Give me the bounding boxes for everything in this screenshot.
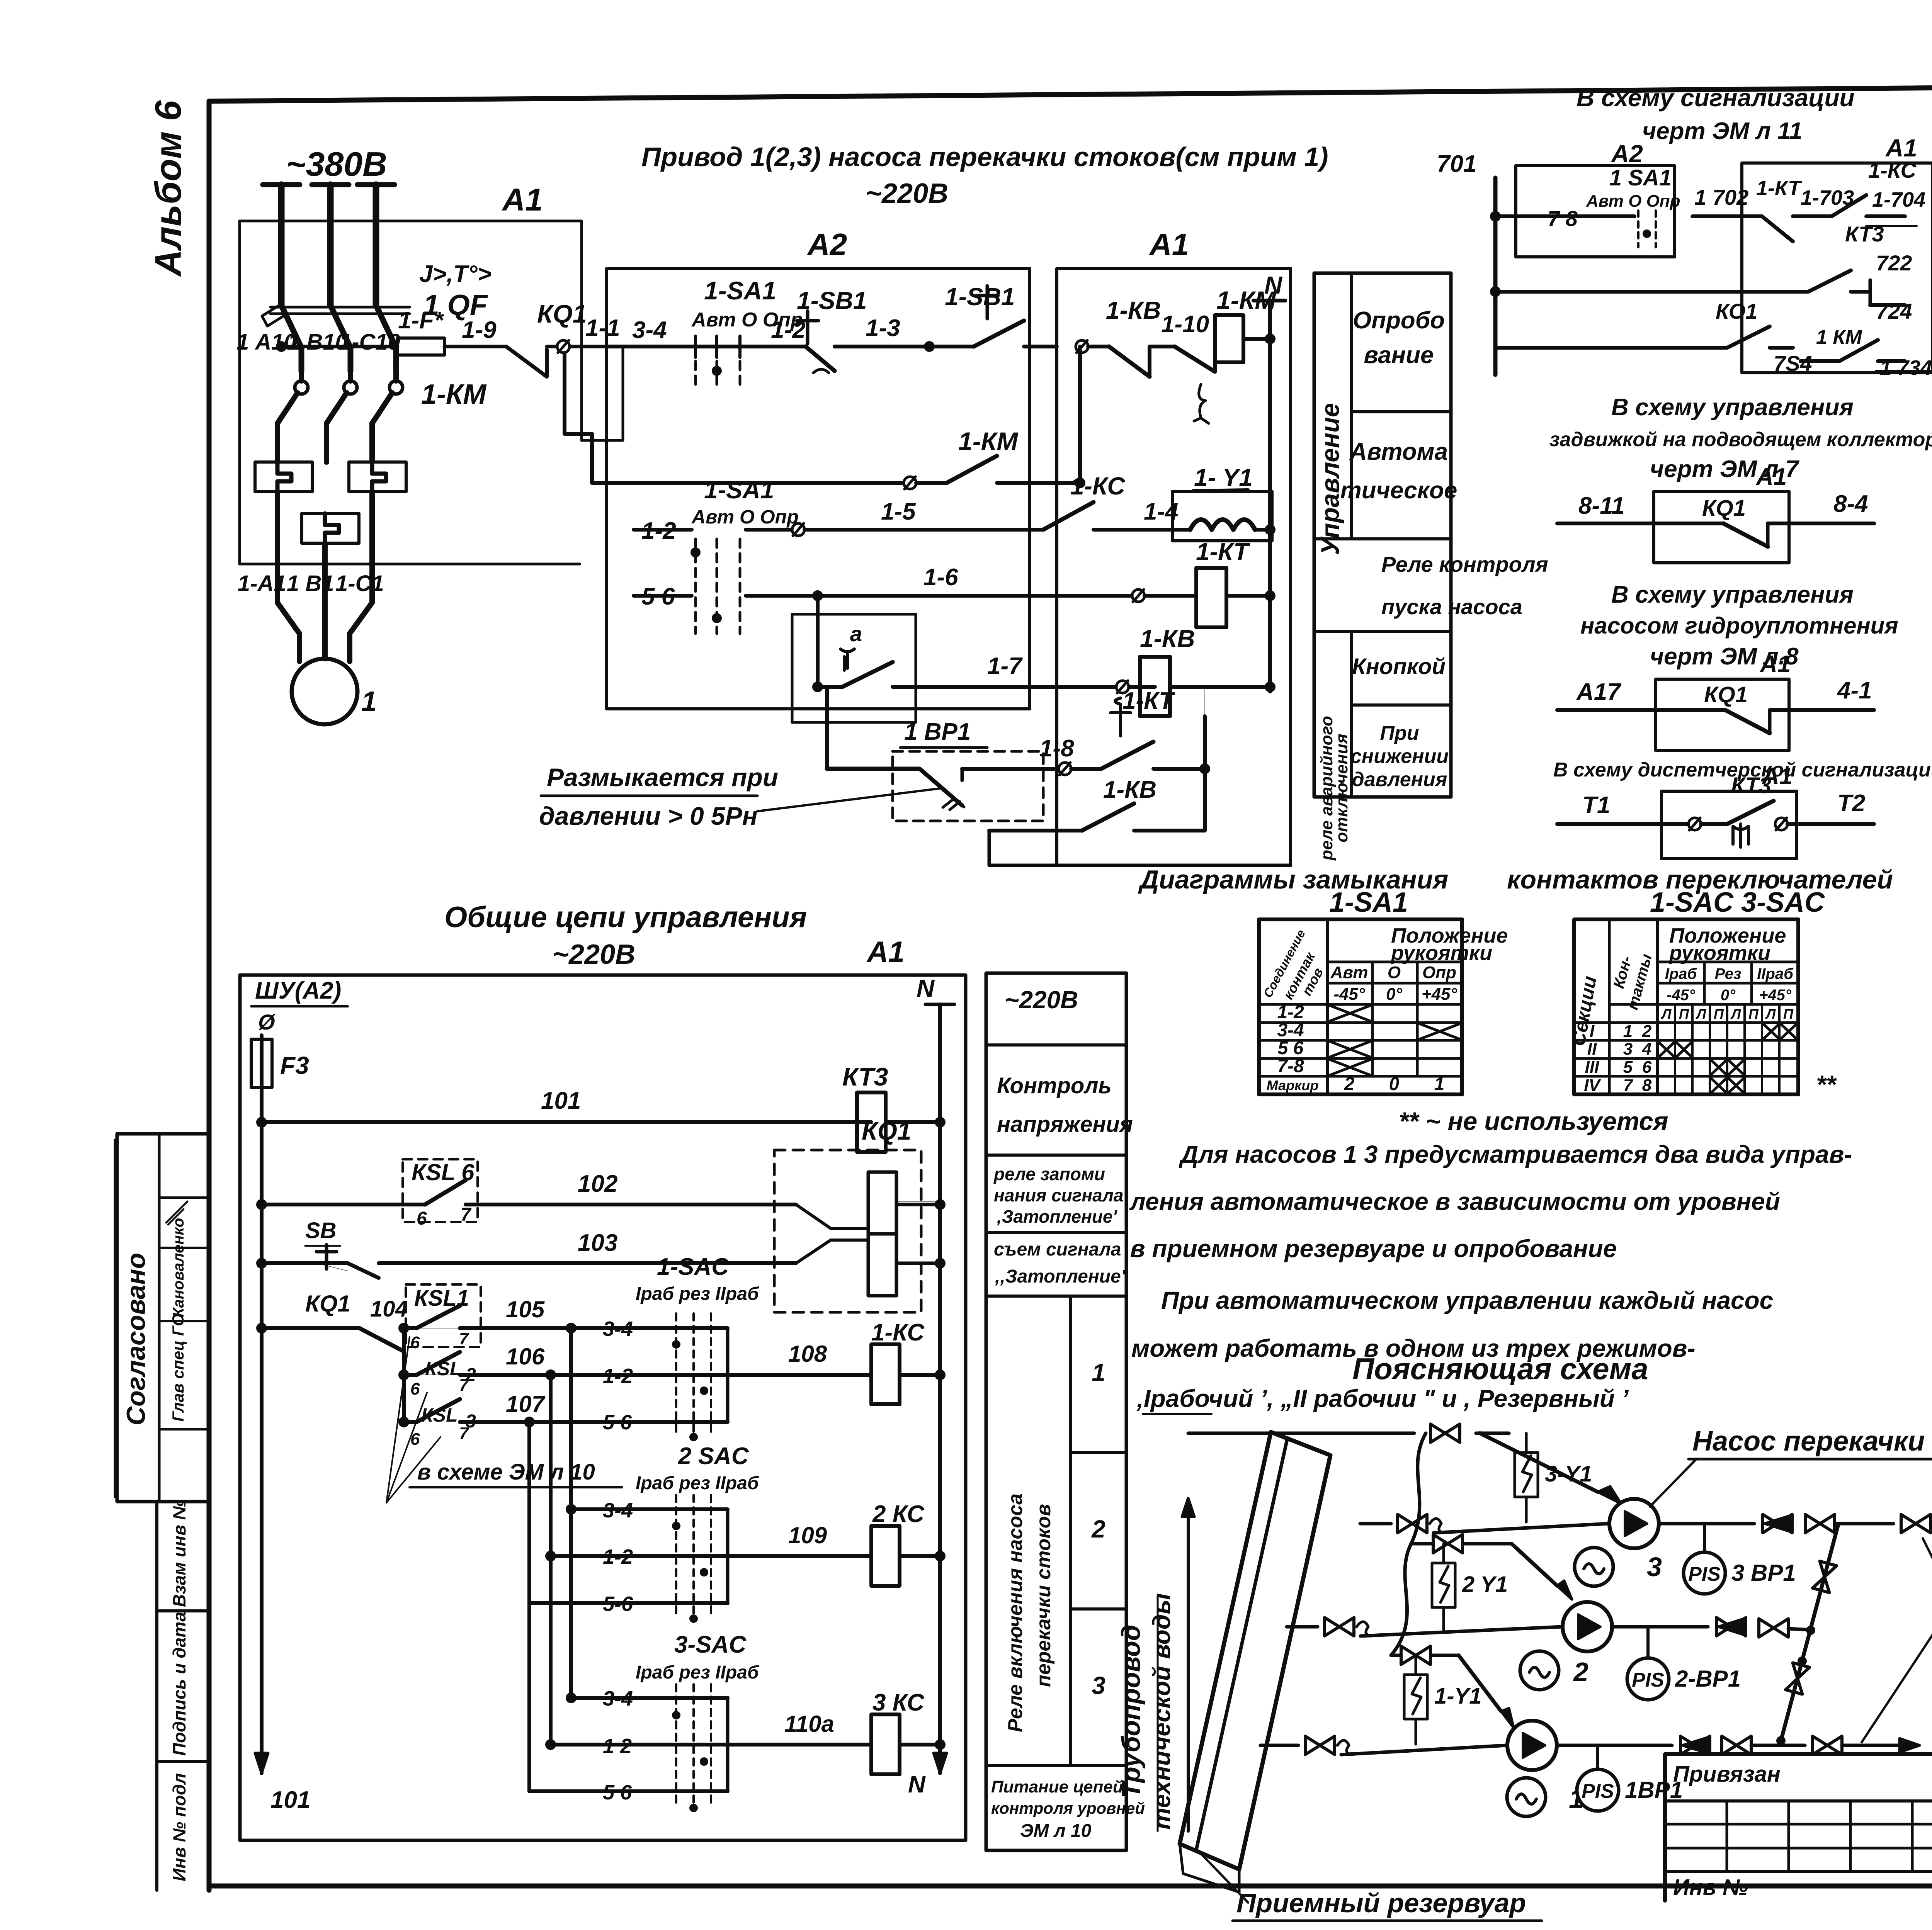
svg-text:1-КВ: 1-КВ: [1140, 625, 1195, 652]
svg-text:7S4: 7S4: [1774, 351, 1812, 375]
svg-text:1-F*: 1-F*: [398, 307, 444, 334]
svg-text:1-SAC: 1-SAC: [657, 1254, 729, 1280]
drawing heading: [641, 142, 1328, 209]
SAC column block 3: [529, 1631, 946, 1812]
svg-text:1-КМ: 1-КМ: [1216, 286, 1277, 314]
svg-text:1-3: 1-3: [866, 315, 900, 341]
pressure relay 1 BP1: [827, 687, 1043, 821]
svg-text:3-SAC: 3-SAC: [674, 1631, 747, 1658]
svg-text:Ø: Ø: [258, 1010, 276, 1034]
svg-text:IIраб: IIраб: [1757, 965, 1794, 982]
svg-text:ления автоматическое в зави: ления автоматическое в зависимости от ур…: [1129, 1188, 1780, 1215]
svg-text:а: а: [850, 622, 862, 646]
svg-text:1-Y1: 1-Y1: [1434, 1684, 1482, 1709]
left bus 101: [255, 1122, 310, 1813]
svg-text:Привод 1(2,3) насоса перекачки: Привод 1(2,3) насоса перекачки стоков(см…: [641, 142, 1328, 172]
motor 1: [292, 659, 377, 724]
svg-text:2 КС: 2 КС: [872, 1501, 925, 1527]
reference to EM l10: [386, 1337, 622, 1503]
svg-text:Iраб: Iраб: [1665, 965, 1697, 982]
svg-text:1ВР1: 1ВР1: [1625, 1777, 1683, 1803]
svg-text:А2: А2: [1611, 140, 1643, 168]
fuse 1-F* and relay KQ1 contact feed: [276, 299, 623, 377]
feeder label ShU(A2): [251, 977, 348, 1034]
svg-text:1-С1: 1-С1: [335, 571, 384, 596]
svg-text:~220В: ~220В: [1005, 986, 1078, 1014]
svg-text:0°: 0°: [1386, 985, 1402, 1004]
diagrams heading: [1138, 865, 1893, 918]
contactor 1-KM power contacts: [277, 371, 487, 462]
svg-text:1 734: 1 734: [1880, 356, 1932, 379]
svg-text:задвижкой на подводящем коллек: задвижкой на подводящем коллекторе: [1549, 428, 1932, 451]
svg-text:3-Y1: 3-Y1: [1545, 1461, 1592, 1487]
contact 1-KB NC row1: [1076, 296, 1215, 423]
svg-text:пуска насоса: пуска насоса: [1381, 595, 1522, 619]
mini valve control circuit: [1557, 464, 1874, 563]
svg-text:Контроль: Контроль: [997, 1073, 1112, 1098]
note razmykaetsya: [539, 763, 943, 830]
row 104 KQ1 contact: [256, 1291, 491, 1351]
svg-text:П: П: [1714, 1006, 1724, 1022]
svg-text:рукоятки: рукоятки: [1390, 941, 1492, 965]
tech water pipe labels: [1116, 1593, 1175, 1831]
svg-text:перекачки стоков: перекачки стоков: [1032, 1504, 1055, 1687]
svg-text:~220В: ~220В: [553, 939, 635, 970]
svg-text:105: 105: [506, 1296, 545, 1322]
svg-text:722: 722: [1876, 251, 1912, 275]
svg-text:Кановаленко: Кановаленко: [170, 1218, 187, 1317]
svg-text:7-8: 7-8: [1277, 1056, 1304, 1077]
common circuit cabinet A1 box: [240, 936, 966, 1840]
svg-text:1-КВ: 1-КВ: [1103, 776, 1156, 803]
svg-text:1-SA1: 1-SA1: [704, 276, 776, 305]
svg-text:1-КТ: 1-КТ: [1122, 688, 1175, 714]
svg-text:При автоматическом управлени: При автоматическом управлении каждый нас…: [1161, 1286, 1773, 1314]
svg-text:PIS: PIS: [1582, 1780, 1614, 1803]
svg-text:Инв №: Инв №: [1673, 1875, 1748, 1900]
mini signalling circuit: [1437, 134, 1932, 379]
valve coil 1-Y1: [1172, 464, 1276, 541]
svg-text:108: 108: [788, 1341, 827, 1367]
svg-text:IV: IV: [1584, 1076, 1601, 1095]
svg-text:3: 3: [1092, 1672, 1105, 1699]
svg-text:1-6: 1-6: [923, 564, 958, 591]
N bus right: [908, 974, 954, 1798]
svg-text:3 ВР1: 3 ВР1: [1731, 1560, 1796, 1586]
svg-text:104: 104: [370, 1296, 408, 1322]
svg-text:давления: давления: [1352, 768, 1447, 791]
svg-text:3: 3: [1623, 1040, 1633, 1058]
svg-text:1-704: 1-704: [1872, 188, 1925, 211]
svg-text:В схему сигнализации: В схему сигнализации: [1577, 84, 1855, 112]
svg-text:**: **: [1816, 1070, 1837, 1099]
contactor coil 1-KM: [1215, 286, 1277, 362]
svg-text:1-А1: 1-А1: [238, 571, 286, 596]
fuse F3: [251, 1035, 309, 1122]
svg-text:Авт: Авт: [1330, 963, 1368, 982]
row 102 KSL6: [256, 1159, 796, 1229]
svg-text:1-С10: 1-С10: [339, 330, 400, 355]
svg-text:3-4: 3-4: [1277, 1020, 1304, 1041]
svg-text:в схеме ЭМ л 10: в схеме ЭМ л 10: [417, 1459, 595, 1485]
breaker 1QF: [236, 185, 492, 371]
function label column top: [1314, 273, 1548, 861]
svg-text:1-КМ: 1-КМ: [958, 427, 1019, 455]
svg-text:1-КВ: 1-КВ: [1106, 296, 1161, 324]
svg-text:‚Затопление': ‚Затопление': [997, 1206, 1117, 1227]
thermal relay heaters: [255, 462, 406, 543]
center text paragraphs: [1129, 1140, 1852, 1414]
svg-text:7 8: 7 8: [1548, 206, 1578, 231]
svg-text:Опр: Опр: [1422, 963, 1456, 982]
svg-text:N: N: [908, 1771, 926, 1798]
svg-text:1-КМ: 1-КМ: [421, 379, 487, 410]
svg-text:съем сигнала: съем сигнала: [994, 1239, 1121, 1260]
svg-text:Для насосов 1 3 предусматр: Для насосов 1 3 предусматривается два ви…: [1179, 1140, 1852, 1168]
svg-text:SB: SB: [305, 1218, 337, 1243]
pressure switch contact a: [792, 596, 1155, 722]
svg-text:1-1: 1-1: [585, 315, 620, 341]
svg-text:PIS: PIS: [1632, 1669, 1664, 1691]
svg-text:При: При: [1380, 722, 1419, 744]
svg-text:Поясняющая схема: Поясняющая схема: [1352, 1352, 1648, 1386]
block A1 control outline: [1057, 227, 1291, 865]
switch 1-SA1 top: [684, 276, 803, 390]
pressure manifold riser: [1776, 1524, 1838, 1745]
svg-text:снижении: снижении: [1350, 745, 1449, 768]
tank label: [1198, 1850, 1542, 1921]
svg-text:Л: Л: [1696, 1006, 1707, 1022]
common circuits heading: [444, 901, 807, 970]
svg-text:Iраб рез IIраб: Iраб рез IIраб: [636, 1284, 759, 1304]
svg-text:0°: 0°: [1721, 987, 1736, 1004]
svg-text:нания сигнала: нания сигнала: [994, 1185, 1123, 1205]
svg-text:8: 8: [1642, 1076, 1652, 1095]
svg-text:1: 1: [361, 686, 377, 717]
N bus: [1253, 271, 1285, 691]
svg-text:1: 1: [1092, 1359, 1105, 1386]
solenoid valve 2 Y1: [1442, 1544, 1445, 1563]
svg-text:А1: А1: [1759, 651, 1791, 678]
button 1-SB1 start: [924, 283, 1057, 352]
svg-text:2: 2: [1573, 1657, 1588, 1687]
svg-text:КТ3: КТ3: [1845, 222, 1884, 246]
mini hydro pump heading: [1580, 581, 1898, 670]
node 3-4 row main: [607, 317, 684, 347]
svg-text:Iраб рез IIраб: Iраб рез IIраб: [636, 1473, 759, 1493]
svg-text:насосом гидроуплотнения: насосом гидроуплотнения: [1580, 613, 1898, 639]
pump unit 2: [1287, 1602, 1815, 1700]
svg-text:1-5: 1-5: [881, 498, 916, 525]
svg-text:А17: А17: [1576, 679, 1621, 705]
svg-text:Приемный резервуар: Приемный резервуар: [1236, 1888, 1526, 1918]
svg-text:5: 5: [1623, 1058, 1633, 1077]
svg-text:1-КТ: 1-КТ: [1756, 177, 1802, 200]
relay coil 1-KB: [1140, 625, 1276, 716]
relay 1-KT feed row 5-6: [634, 538, 1276, 627]
svg-text:Подпись и дата: Подпись и дата: [169, 1612, 189, 1756]
svg-text:1: 1: [1623, 1022, 1633, 1041]
svg-text:А1: А1: [1755, 464, 1787, 490]
svg-text:О: О: [1388, 963, 1401, 982]
svg-text:Авт О Опр: Авт О Опр: [1586, 192, 1680, 211]
svg-text:I: I: [1590, 1022, 1595, 1041]
svg-text:КQ1: КQ1: [305, 1291, 350, 1317]
svg-text:III: III: [1585, 1058, 1599, 1077]
svg-text:Т2: Т2: [1837, 790, 1865, 817]
svg-text:** ~ не используется: ** ~ не используется: [1399, 1107, 1668, 1135]
svg-text:Автома: Автома: [1349, 438, 1448, 465]
svg-text:А1: А1: [502, 182, 543, 217]
svg-text:6: 6: [410, 1333, 420, 1352]
svg-text:J>,Т°>: J>,Т°>: [419, 261, 492, 287]
svg-text:1-SA1: 1-SA1: [704, 476, 774, 504]
svg-text:Кнопкой: Кнопкой: [1352, 654, 1446, 679]
receiving tank prism: [1180, 1432, 1330, 1892]
svg-text:102: 102: [578, 1171, 617, 1197]
supply ticks: [263, 182, 395, 187]
svg-text:КТ3: КТ3: [842, 1062, 888, 1091]
SAC column block 1: [524, 1254, 946, 1791]
svg-text:П: П: [1679, 1006, 1689, 1022]
svg-text:В схему управления: В схему управления: [1611, 581, 1854, 608]
svg-text:103: 103: [578, 1230, 617, 1256]
cabinet A1 power outline: [240, 182, 623, 564]
svg-text:8-4: 8-4: [1833, 491, 1868, 517]
svg-text:110а: 110а: [784, 1711, 834, 1737]
svg-text:7: 7: [459, 1424, 469, 1443]
svg-text:2 Y1: 2 Y1: [1462, 1572, 1508, 1597]
svg-text:II: II: [1587, 1040, 1597, 1058]
svg-text:1 А10: 1 А10: [236, 330, 296, 355]
svg-text:6: 6: [417, 1208, 427, 1229]
svg-text:КТ3: КТ3: [1731, 773, 1771, 798]
svg-text:701: 701: [1437, 151, 1476, 177]
svg-text:1 ВР1: 1 ВР1: [904, 719, 971, 745]
svg-text:107: 107: [506, 1391, 546, 1417]
svg-text:1-КС: 1-КС: [871, 1319, 925, 1346]
svg-text:1-SB1: 1-SB1: [945, 283, 1015, 311]
svg-text:Рез: Рез: [1715, 965, 1742, 982]
svg-text:Привязан: Привязан: [1673, 1762, 1781, 1787]
svg-text:4: 4: [1642, 1040, 1651, 1058]
svg-text:2-ВР1: 2-ВР1: [1675, 1666, 1741, 1692]
svg-text:1-КС: 1-КС: [1868, 158, 1917, 182]
svg-text:ШУ(А2): ШУ(А2): [255, 977, 341, 1004]
table 1-SA1: [1259, 919, 1508, 1094]
svg-text:3-4: 3-4: [632, 317, 667, 343]
svg-text:N: N: [917, 974, 935, 1002]
svg-text:отключения: отключения: [1332, 734, 1351, 843]
svg-text:-45°: -45°: [1333, 985, 1365, 1004]
svg-text:Согласовано: Согласовано: [121, 1253, 151, 1425]
motor feeder wires: [238, 492, 384, 661]
svg-text:1- Y1: 1- Y1: [1194, 464, 1253, 491]
svg-text:2: 2: [1091, 1515, 1105, 1543]
svg-text:реле запоми: реле запоми: [993, 1164, 1105, 1184]
svg-text:4-1: 4-1: [1837, 677, 1872, 704]
svg-text:1: 1: [1434, 1074, 1445, 1094]
soglasovano stamp block: [115, 1134, 209, 1502]
contact 1-KM aux row: [565, 347, 1085, 489]
svg-text:PIS: PIS: [1688, 1563, 1721, 1585]
svg-text:101: 101: [270, 1787, 310, 1813]
svg-text:Питание цепей: Питание цепей: [991, 1777, 1123, 1796]
top supply pipe to pump3: [1188, 1424, 1621, 1504]
svg-text:1-SB1: 1-SB1: [797, 287, 867, 314]
svg-text:Л: Л: [1730, 1006, 1742, 1022]
svg-text:0: 0: [1389, 1074, 1400, 1094]
svg-text:КQ1: КQ1: [862, 1116, 912, 1145]
svg-text:~220В: ~220В: [866, 178, 948, 209]
svg-text:Секции: Секции: [1567, 974, 1601, 1048]
svg-text:1-2: 1-2: [1277, 1002, 1304, 1023]
zigzag seal-water drop: [1391, 1433, 1426, 1655]
relay KQ1 latching block: [774, 1116, 946, 1312]
svg-text:тическое: тическое: [1340, 477, 1458, 504]
svg-text:1-SAC 3-SAC: 1-SAC 3-SAC: [1650, 887, 1825, 918]
svg-text:Размыкается при: Размыкается при: [547, 763, 778, 792]
relay coil KT3 row 101: [256, 1062, 946, 1152]
svg-text:Л: Л: [1661, 1006, 1672, 1022]
svg-text:А2: А2: [807, 227, 847, 262]
svg-text:1-10: 1-10: [1161, 311, 1209, 338]
svg-text:черт ЭМ л 11: черт ЭМ л 11: [1642, 118, 1802, 144]
contact 1-KB hold: [989, 776, 1291, 865]
mini dispatch circuit: [1557, 763, 1874, 859]
svg-text:КQ1: КQ1: [1704, 682, 1748, 707]
svg-text:109: 109: [788, 1522, 827, 1548]
svg-text:Т1: Т1: [1582, 792, 1610, 819]
svg-text:7: 7: [1623, 1076, 1634, 1095]
svg-text:2: 2: [1642, 1022, 1652, 1041]
svg-text:КQ1: КQ1: [537, 299, 587, 328]
svg-text:технической воды: технической воды: [1148, 1593, 1175, 1830]
svg-text:рукоятки: рукоятки: [1668, 941, 1770, 965]
svg-text:контроля уровней: контроля уровней: [991, 1799, 1145, 1817]
svg-text:7: 7: [459, 1376, 469, 1395]
button 1-SB1 stop: [746, 287, 929, 373]
svg-text:‚‚Затопление': ‚‚Затопление': [995, 1266, 1126, 1287]
svg-text:П: П: [1748, 1006, 1759, 1022]
svg-text:7: 7: [459, 1329, 469, 1348]
svg-text:1-9: 1-9: [462, 317, 497, 343]
supply stub to pump1: [1391, 1646, 1514, 1728]
pressure pipes label: [1862, 1538, 1932, 1742]
svg-text:Iраб рез IIраб: Iраб рез IIраб: [636, 1662, 759, 1683]
svg-text:2: 2: [1344, 1074, 1355, 1094]
svg-text:А1: А1: [1149, 227, 1189, 262]
svg-text:3 КС: 3 КС: [872, 1689, 925, 1716]
svg-text:-45°: -45°: [1667, 987, 1696, 1004]
svg-text:в приемном резервуаре и о: в приемном резервуаре и опробование: [1130, 1235, 1617, 1262]
svg-text:724: 724: [1876, 299, 1912, 323]
svg-text:~380В: ~380В: [286, 145, 387, 183]
svg-text:1-7: 1-7: [987, 653, 1023, 680]
svg-text:+45°: +45°: [1759, 987, 1792, 1004]
svg-text:давлении > 0 5Рн: давлении > 0 5Рн: [539, 802, 758, 830]
svg-text:6: 6: [1642, 1058, 1652, 1077]
switch 1-SA1 lower + contact 1-KC: [634, 472, 1179, 634]
svg-text:Насос перекачки стоков: Насос перекачки стоков: [1692, 1426, 1932, 1457]
svg-text:Инв № подл: Инв № подл: [169, 1773, 189, 1881]
svg-text:Авт О Опр: Авт О Опр: [691, 506, 799, 528]
svg-text:5 6: 5 6: [1278, 1038, 1304, 1058]
row 103 SB button: [256, 1218, 796, 1278]
solenoid valve 3-Y1: [1525, 1433, 1528, 1453]
svg-text:А1: А1: [866, 936, 905, 968]
svg-text:1-КС: 1-КС: [1070, 472, 1125, 500]
KSL1-3 level switch group: [398, 1284, 571, 1449]
mini hydro pump circuit: [1557, 651, 1874, 751]
svg-text:напряжения: напряжения: [997, 1112, 1133, 1137]
svg-text:+45°: +45°: [1422, 985, 1458, 1004]
tech water vertical pipe with arrow: [1182, 1498, 1194, 1831]
svg-text:1 В10: 1 В10: [288, 330, 348, 355]
svg-text:Реле включения насоса: Реле включения насоса: [1004, 1493, 1027, 1732]
svg-text:6: 6: [410, 1380, 420, 1398]
svg-text:3: 3: [1647, 1552, 1662, 1582]
contact 1-KT timed: [962, 688, 1210, 831]
svg-text:Глав спец ГО: Глав спец ГО: [169, 1313, 187, 1422]
svg-text:1 КМ: 1 КМ: [1816, 326, 1862, 348]
svg-text:8-11: 8-11: [1578, 493, 1625, 519]
svg-text:КО1: КО1: [1716, 299, 1757, 323]
mini circuit valve control heading: [1549, 394, 1932, 482]
svg-text:Маркир: Маркир: [1267, 1077, 1319, 1093]
svg-text:1 В1: 1 В1: [287, 571, 334, 596]
svg-text:Реле контроля: Реле контроля: [1381, 552, 1548, 576]
svg-text:Трубопровод: Трубопровод: [1116, 1624, 1146, 1798]
pump3 label: [1650, 1426, 1932, 1507]
svg-text:106: 106: [506, 1344, 545, 1369]
svg-text:Альбом 6: Альбом 6: [148, 100, 189, 277]
svg-text:101: 101: [541, 1087, 581, 1114]
svg-text:КQ1: КQ1: [1702, 496, 1746, 521]
svg-text:Общие цепи управления: Общие цепи управления: [444, 901, 807, 934]
attachment stamp grid: [1665, 1754, 1932, 1901]
svg-text:вание: вание: [1364, 342, 1434, 369]
svg-text:‚Iрабочий ʼ, „II рабочии " и: ‚Iрабочий ʼ, „II рабочии " и , Резервный…: [1136, 1385, 1629, 1412]
svg-text:2 SAC: 2 SAC: [678, 1443, 749, 1470]
SAC column block 2: [529, 1443, 946, 1623]
svg-text:1 SA1: 1 SA1: [1609, 165, 1672, 190]
function label column bottom: [986, 973, 1145, 1850]
svg-text:В схему управления: В схему управления: [1611, 394, 1854, 421]
svg-text:Взам инв №: Взам инв №: [169, 1499, 189, 1607]
solenoid valve 1-Y1: [1415, 1655, 1417, 1675]
svg-text:1-8: 1-8: [1039, 735, 1074, 762]
svg-text:1-КТ: 1-КТ: [1196, 538, 1250, 566]
pump unit 3: [1360, 1499, 1932, 1594]
left frame stamp cells: [117, 1499, 209, 1890]
svg-text:1-SA1: 1-SA1: [1329, 887, 1408, 918]
mini circuit signalling heading: [1577, 84, 1855, 144]
svg-text:F3: F3: [280, 1052, 309, 1079]
svg-text:Опробо: Опробо: [1353, 307, 1445, 334]
svg-text:Л: Л: [1765, 1006, 1776, 1022]
svg-text:7: 7: [461, 1205, 472, 1225]
supply stub to pump2: [1411, 1534, 1572, 1599]
table 1-SAC: [1567, 919, 1837, 1099]
pump unit 1: [1260, 1721, 1920, 1816]
svg-text:П: П: [1783, 1006, 1794, 1022]
svg-text:ЭМ л 10: ЭМ л 10: [1020, 1821, 1092, 1841]
block A2 outline: [607, 227, 1030, 709]
